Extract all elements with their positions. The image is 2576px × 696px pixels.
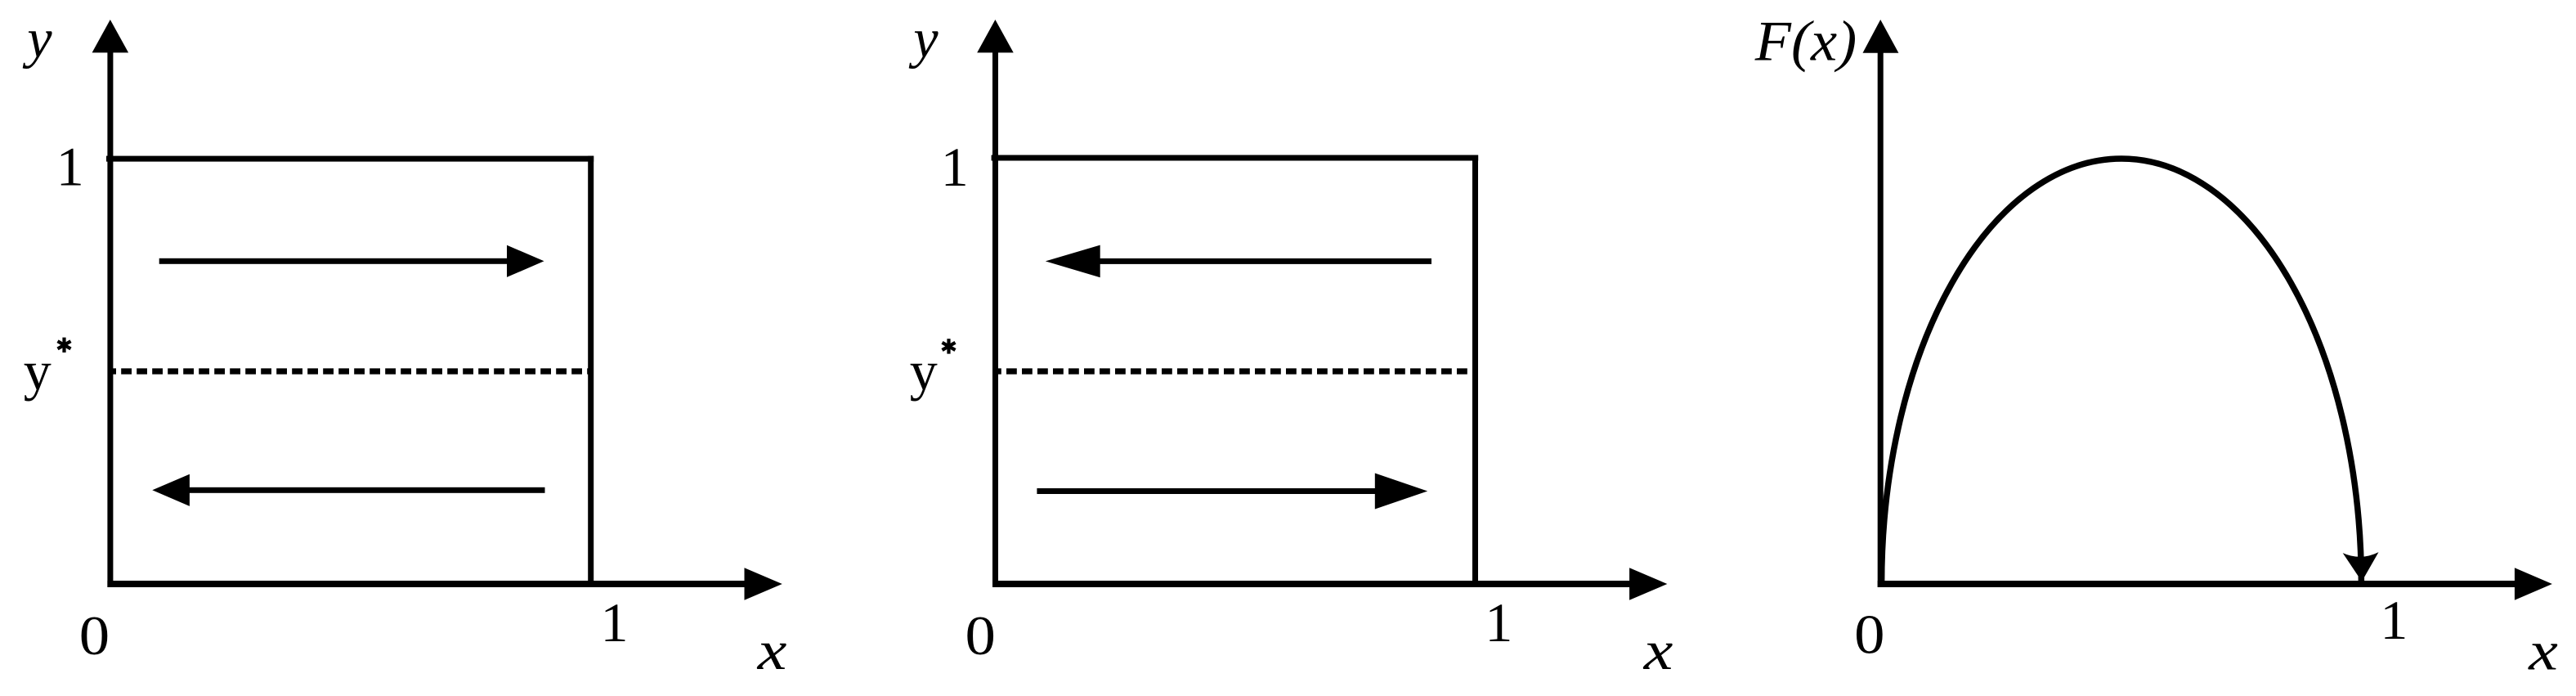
- panel 3 y-axis: [1863, 20, 1899, 587]
- svg-text:F(x): F(x): [1754, 11, 1857, 74]
- panel 1 box right edge: [588, 156, 594, 587]
- panel 2 box right edge: [1472, 155, 1478, 588]
- panel 2 lower arrow (rightward): [1037, 474, 1427, 510]
- svg-text:0: 0: [965, 605, 996, 667]
- panel 1 x-axis: [107, 568, 782, 600]
- panel 1 lower arrow (leftward): [152, 474, 544, 506]
- panel 3 F(x) arch curve: [1882, 159, 2362, 584]
- panel 3 label x (x-axis title): [2528, 621, 2558, 682]
- svg-text:x: x: [757, 621, 787, 682]
- svg-text:0: 0: [1854, 604, 1884, 666]
- panel 1 box top edge: [106, 156, 594, 162]
- svg-text:1: 1: [2380, 589, 2408, 651]
- svg-text:0: 0: [79, 605, 110, 667]
- panel 3 label 0 (origin): [1854, 604, 1884, 666]
- panel 2 x-axis: [992, 568, 1667, 600]
- svg-text:1: 1: [56, 135, 84, 197]
- svg-text:y: y: [24, 339, 52, 402]
- panel 3 curve down arrowhead: [2343, 552, 2379, 581]
- svg-text:1: 1: [941, 136, 969, 198]
- panel 2 y-axis: [977, 20, 1014, 587]
- panel 3 x-axis: [1878, 568, 2552, 600]
- panel 2 label 0 (origin): [965, 605, 996, 667]
- svg-text:1: 1: [1485, 591, 1512, 653]
- svg-text:x: x: [1643, 621, 1673, 682]
- panel 3 label F(x): [1754, 11, 1857, 74]
- panel 1 label x (x-axis title): [757, 621, 787, 682]
- svg-text:y: y: [910, 339, 938, 402]
- panel 1 dashed y* level line: [112, 368, 594, 374]
- svg-text:y: y: [22, 7, 52, 70]
- panel 1 label 0 (origin): [79, 605, 110, 667]
- svg-text:x: x: [2528, 621, 2558, 682]
- panel 2 dashed y* level line: [997, 368, 1479, 374]
- panel 2 box top edge: [992, 155, 1479, 161]
- panel 1 upper arrow (rightward): [159, 245, 544, 277]
- svg-text:y: y: [908, 7, 939, 70]
- panel 2 upper arrow (leftward): [1046, 245, 1431, 278]
- svg-text:1: 1: [601, 591, 629, 653]
- panel 1 y-axis: [92, 20, 129, 587]
- panel 2 label x (x-axis title): [1643, 621, 1673, 682]
